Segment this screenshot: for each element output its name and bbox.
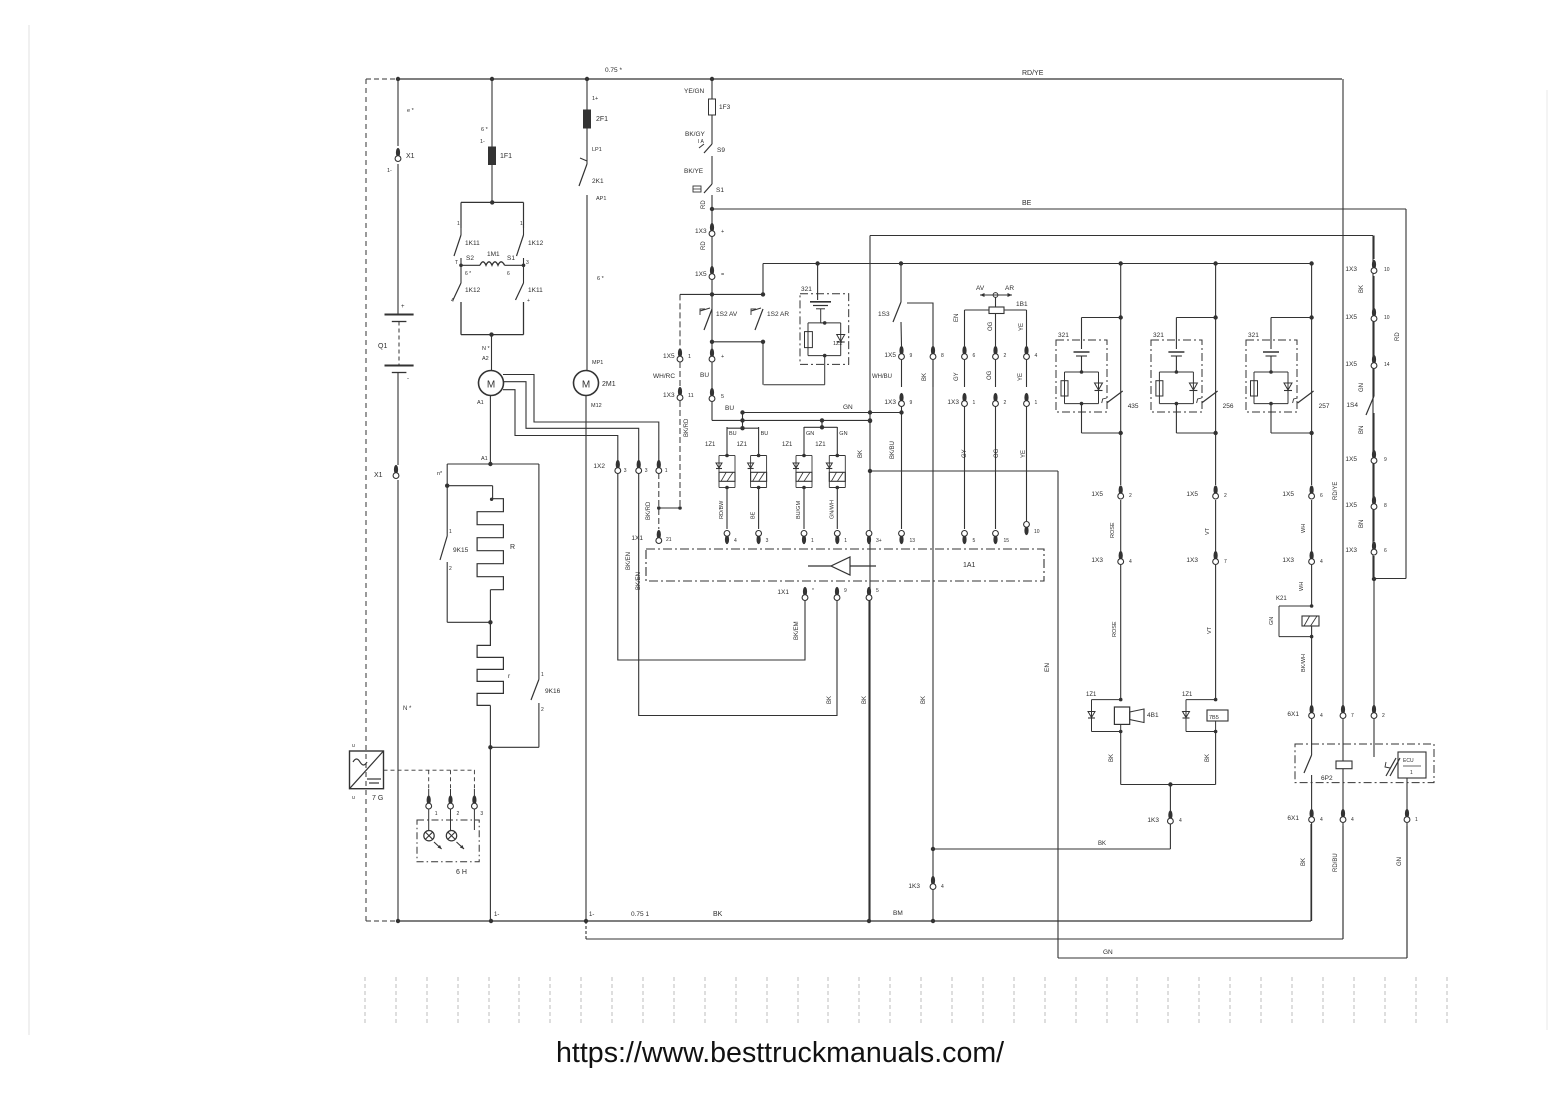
wire vt xyxy=(1205,500,1216,551)
svg-text:1X5: 1X5 xyxy=(1091,491,1103,498)
svg-text:1X2: 1X2 xyxy=(593,463,605,470)
svg-text:4: 4 xyxy=(734,538,737,544)
svg-text:6 H: 6 H xyxy=(456,869,467,876)
wire 1M1 column xyxy=(480,79,492,202)
svg-text:10: 10 xyxy=(1034,529,1040,535)
connector 869 pin xyxy=(866,531,882,545)
svg-text:K21: K21 xyxy=(1276,596,1287,602)
switch 1K11 upper-left xyxy=(454,221,480,266)
wire 1K3 branch xyxy=(933,841,1170,849)
svg-text:4B1: 4B1 xyxy=(1147,712,1159,719)
svg-text:1: 1 xyxy=(435,811,438,817)
svg-text:1: 1 xyxy=(973,400,976,406)
svg-text:1X3: 1X3 xyxy=(884,399,896,406)
module 6B8 xyxy=(1398,752,1426,809)
svg-text:4: 4 xyxy=(1035,353,1038,359)
svg-text:2: 2 xyxy=(541,707,544,713)
wire heater right branch xyxy=(538,464,540,679)
svg-text:1K12: 1K12 xyxy=(465,287,481,294)
connector 1X3 rose xyxy=(1091,551,1132,565)
connector 1A1 pin 3 xyxy=(756,531,769,545)
connector 1A1 pin 4 xyxy=(724,531,737,545)
switch 1K12 upper-right xyxy=(517,221,544,266)
connector 6X1 bottom row xyxy=(1287,809,1418,823)
selector AV/AR 1B1 xyxy=(954,285,1028,346)
svg-text:9K15: 9K15 xyxy=(453,547,469,554)
LED optocoupler 6P2 xyxy=(1385,758,1400,776)
wire 7G dashed links xyxy=(384,770,476,789)
svg-text:1X5: 1X5 xyxy=(1345,361,1357,368)
svg-text:1: 1 xyxy=(844,538,847,544)
svg-text:1Z1: 1Z1 xyxy=(782,442,793,448)
ECU 1A1 box xyxy=(646,549,1044,581)
node heater top xyxy=(447,456,539,466)
svg-text:VT: VT xyxy=(1207,626,1213,634)
svg-text:1X5: 1X5 xyxy=(1345,314,1357,321)
svg-text:e *: e * xyxy=(407,108,415,114)
svg-text:9: 9 xyxy=(910,353,913,359)
svg-text:321: 321 xyxy=(801,286,812,293)
wire BK/RD dashed column xyxy=(659,294,690,509)
switch 2K1 xyxy=(579,158,604,186)
svg-text:BK: BK xyxy=(1109,754,1115,762)
connector 1A1 pin 1 xyxy=(834,531,847,545)
connector 1K3 xyxy=(1147,810,1182,824)
svg-text:1-: 1- xyxy=(480,139,485,145)
wire columns to ECU xyxy=(890,360,1027,921)
connector 1X3 xyxy=(695,223,724,237)
svg-text:13: 13 xyxy=(910,538,916,544)
wire BE line from S1 xyxy=(712,200,1406,579)
wire to 6P2 xyxy=(1311,719,1313,755)
svg-text:1-: 1- xyxy=(589,912,594,918)
switch 1K12 lower-left xyxy=(451,265,481,334)
svg-text:OG: OG xyxy=(987,370,993,380)
switch 9K15 xyxy=(440,529,469,622)
svg-text:BK: BK xyxy=(1205,754,1211,762)
wire vt 2 xyxy=(1207,565,1216,700)
svg-text:2: 2 xyxy=(1382,713,1385,719)
connector 1X5 xyxy=(695,266,724,280)
connector X1 lower xyxy=(374,465,399,479)
relay K21 xyxy=(1269,565,1319,705)
svg-text:6P2: 6P2 xyxy=(1321,775,1333,782)
wire motor1 output 2 xyxy=(503,382,639,461)
wire motor1 output 3 xyxy=(503,390,618,461)
svg-text:1K3: 1K3 xyxy=(908,883,920,890)
svg-text:RD: RD xyxy=(1395,332,1401,341)
svg-text:BK/BU: BK/BU xyxy=(890,441,896,459)
wire relay bus 2 xyxy=(804,425,837,429)
svg-text:1X3: 1X3 xyxy=(1091,557,1103,564)
svg-text:2: 2 xyxy=(449,566,452,572)
svg-text:*: * xyxy=(812,588,814,594)
svg-text:BN: BN xyxy=(1359,520,1365,528)
svg-text:7: 7 xyxy=(1351,713,1354,719)
connector 712-349 xyxy=(709,348,724,362)
wire GN bottom line xyxy=(1058,826,1407,958)
resistor r lower zigzag xyxy=(477,622,511,747)
svg-text:RD/YE: RD/YE xyxy=(1333,482,1339,500)
svg-text:6: 6 xyxy=(973,353,976,359)
svg-text:BK: BK xyxy=(1359,285,1365,293)
connector 1X3 row middle xyxy=(884,393,1037,407)
svg-text:+: + xyxy=(527,298,530,304)
svg-text:AR: AR xyxy=(1005,285,1014,292)
wire horn bottom bus xyxy=(1121,782,1216,811)
svg-text:321: 321 xyxy=(1058,332,1069,339)
svg-text:A1: A1 xyxy=(481,456,488,462)
svg-text:6 *: 6 * xyxy=(597,276,605,282)
svg-text:3: 3 xyxy=(526,260,529,266)
connector 1A1 pin 1 xyxy=(801,531,814,545)
svg-text:S1: S1 xyxy=(716,187,724,194)
node 1S2 bottom xyxy=(710,340,765,385)
connector 6H pins xyxy=(426,789,484,830)
wire bottom bus BK xyxy=(366,824,1311,923)
wire 869 column segment xyxy=(858,419,872,458)
wire 2M1 column xyxy=(587,79,606,409)
svg-text:1X5: 1X5 xyxy=(1186,491,1198,498)
node heater mid xyxy=(447,620,492,624)
svg-text:T: T xyxy=(455,260,458,266)
svg-text:15: 15 xyxy=(1004,538,1010,544)
svg-text:WH/BU: WH/BU xyxy=(872,374,892,380)
wire motor1 output 1 xyxy=(503,375,659,462)
wire 658.8 BK/EN dashed to 1A1 xyxy=(636,473,661,590)
svg-text:21: 21 xyxy=(666,537,672,543)
wire bottom colors xyxy=(1301,823,1407,958)
svg-text:2K1: 2K1 xyxy=(592,178,604,185)
wire motor to heater xyxy=(489,396,491,465)
svg-text:1: 1 xyxy=(449,529,452,535)
svg-text:M: M xyxy=(487,380,495,391)
switch S9 xyxy=(698,139,725,154)
svg-text:BK: BK xyxy=(858,450,864,458)
wire long column BK xyxy=(869,236,871,922)
connector 1X5 rc2 xyxy=(1345,308,1389,322)
svg-text:0.75 *: 0.75 * xyxy=(605,67,622,74)
contactor H-bridge 1K11/1K12 xyxy=(461,200,524,334)
svg-text:9: 9 xyxy=(844,588,847,594)
svg-text:VT: VT xyxy=(1205,527,1211,535)
buzzer 7B5 xyxy=(1182,692,1228,785)
svg-text:S9: S9 xyxy=(717,147,725,154)
svg-text:BK/YE: BK/YE xyxy=(684,168,704,175)
svg-text:1Z1: 1Z1 xyxy=(1182,692,1193,698)
svg-text:9: 9 xyxy=(910,400,913,406)
svg-text:OG: OG xyxy=(988,321,994,331)
svg-text:+: + xyxy=(401,304,405,310)
wire columns between rows xyxy=(902,360,1027,387)
svg-text:u: u xyxy=(352,795,355,801)
svg-text:BU: BU xyxy=(725,405,734,412)
svg-text:YE: YE xyxy=(1021,450,1027,458)
connector 1X5 rc3 xyxy=(1345,355,1389,369)
svg-text:1: 1 xyxy=(811,538,814,544)
svg-text:X1: X1 xyxy=(374,472,383,479)
svg-text:1K11: 1K11 xyxy=(465,240,480,247)
wire xyxy=(1546,90,1548,1030)
wire to motor 1M1 xyxy=(482,332,494,370)
svg-text:GN: GN xyxy=(1103,949,1113,956)
wire 837 867 bottom stubs xyxy=(836,600,838,606)
svg-text:1B1: 1B1 xyxy=(1016,301,1028,308)
svg-text:BK/EN: BK/EN xyxy=(626,552,632,570)
svg-text:1: 1 xyxy=(665,468,668,474)
svg-text:BU: BU xyxy=(700,372,709,379)
wire 869 bottom xyxy=(868,600,870,921)
svg-text:r: r xyxy=(508,673,511,680)
svg-text:11: 11 xyxy=(688,393,694,399)
relay coil 1Z1 at 804 xyxy=(782,427,814,529)
svg-text:1: 1 xyxy=(541,672,544,678)
connector 1X2 row xyxy=(593,460,667,474)
svg-text:3: 3 xyxy=(645,468,648,474)
connector 1374 pin2 xyxy=(1371,705,1385,719)
svg-text:N *: N * xyxy=(403,706,412,712)
switch S1 xyxy=(693,184,724,194)
svg-text:BU/GM: BU/GM xyxy=(796,501,802,519)
svg-text:YE: YE xyxy=(1018,373,1024,381)
svg-text:1+: 1+ xyxy=(592,96,598,102)
svg-text:1Z1: 1Z1 xyxy=(705,442,716,448)
suppressor module 321 / switch 435 xyxy=(1056,261,1139,485)
svg-text:256: 256 xyxy=(1223,403,1234,410)
svg-text:GN: GN xyxy=(1397,857,1403,866)
wire second bottom line xyxy=(586,826,1343,939)
connector X1 xyxy=(395,148,415,162)
wire top supply line 0.75 RD/YE xyxy=(366,67,1342,79)
svg-text:1: 1 xyxy=(457,221,460,227)
svg-text:1S3: 1S3 xyxy=(878,311,890,318)
svg-text:GN: GN xyxy=(806,431,814,437)
node top junctions xyxy=(396,77,714,81)
svg-text:1X3: 1X3 xyxy=(947,399,959,406)
svg-text:8: 8 xyxy=(941,353,944,359)
svg-text:Q1: Q1 xyxy=(378,343,387,350)
wire line to right chain xyxy=(870,236,1373,580)
svg-text:1Z2: 1Z2 xyxy=(833,341,842,347)
wire 1K3 down xyxy=(1169,824,1171,849)
svg-text:M12: M12 xyxy=(591,403,602,409)
wire right chain xyxy=(1359,236,1401,582)
svg-text:6: 6 xyxy=(1384,548,1387,554)
svg-text:1A1: 1A1 xyxy=(963,562,976,569)
svg-text:8: 8 xyxy=(1384,503,1387,509)
svg-text:1Z1: 1Z1 xyxy=(737,442,748,448)
svg-text:14: 14 xyxy=(1384,362,1390,368)
svg-text:1M1: 1M1 xyxy=(487,251,500,258)
svg-text:2: 2 xyxy=(1004,353,1007,359)
svg-text:2: 2 xyxy=(1004,400,1007,406)
svg-text:1K3: 1K3 xyxy=(1147,817,1159,824)
connector 1X5 wh xyxy=(1282,485,1323,499)
svg-text:1X5: 1X5 xyxy=(663,353,675,360)
svg-text:5: 5 xyxy=(876,588,879,594)
svg-text:1: 1 xyxy=(1035,400,1038,406)
svg-text:10: 10 xyxy=(1384,315,1390,321)
svg-text:WH/RC: WH/RC xyxy=(653,373,675,380)
wire wh xyxy=(1301,500,1312,551)
wire BU link lines xyxy=(712,404,904,428)
connector 1X5 680 xyxy=(663,348,691,362)
svg-text:1X3: 1X3 xyxy=(663,392,675,399)
svg-text:1F3: 1F3 xyxy=(719,104,731,111)
svg-text:4: 4 xyxy=(1179,818,1182,824)
svg-text:BE: BE xyxy=(1022,200,1032,207)
svg-text:4: 4 xyxy=(1129,559,1132,565)
node S1 out xyxy=(710,207,714,211)
svg-text:321: 321 xyxy=(1248,332,1259,339)
svg-text:0.75 1: 0.75 1 xyxy=(631,911,649,918)
svg-text:7 G: 7 G xyxy=(372,795,383,802)
svg-text:1Z1: 1Z1 xyxy=(1086,692,1097,698)
svg-text:4: 4 xyxy=(1320,559,1323,565)
svg-text:BK: BK xyxy=(862,696,868,704)
wire xyxy=(28,25,30,1035)
svg-text:BK: BK xyxy=(922,373,928,381)
svg-text:N *: N * xyxy=(482,346,491,352)
svg-text:1X3: 1X3 xyxy=(1345,266,1357,273)
svg-text:BU: BU xyxy=(761,431,769,437)
relay coil 1Z1 at 758.6 xyxy=(737,427,769,529)
svg-text:S1: S1 xyxy=(507,255,515,262)
svg-text:4: 4 xyxy=(1320,713,1323,719)
relay coil 1Z1 at 727 xyxy=(705,427,737,529)
svg-text:4: 4 xyxy=(1320,817,1323,823)
svg-text:M: M xyxy=(582,380,590,391)
svg-text:435: 435 xyxy=(1128,403,1139,410)
fuse 1F3 xyxy=(709,99,731,115)
svg-text:7B5: 7B5 xyxy=(1209,715,1219,721)
svg-text:1: 1 xyxy=(688,354,691,360)
svg-text:BK: BK xyxy=(713,911,723,918)
connector 1X5 vt xyxy=(1186,485,1227,499)
svg-text:3: 3 xyxy=(624,468,627,474)
control box 6P2 xyxy=(1295,744,1434,783)
svg-text:MP1: MP1 xyxy=(592,360,603,366)
svg-text:1X3: 1X3 xyxy=(1186,557,1198,564)
connector 1X3 680 xyxy=(663,387,694,401)
svg-text:+: + xyxy=(721,229,724,235)
svg-text:1X3: 1X3 xyxy=(695,228,707,235)
connector 1343 pin7 xyxy=(1340,705,1354,719)
fuse 2F1 xyxy=(584,110,609,128)
svg-text:2: 2 xyxy=(1224,493,1227,499)
svg-text:1X5: 1X5 xyxy=(1345,502,1357,509)
svg-text:1: 1 xyxy=(1415,817,1418,823)
svg-text:BK: BK xyxy=(1098,841,1106,847)
svg-text:1X1: 1X1 xyxy=(631,535,643,542)
wire relay bus 1 xyxy=(727,426,759,430)
svg-text:1K12: 1K12 xyxy=(528,240,544,247)
svg-text:1S2 AR: 1S2 AR xyxy=(767,311,789,318)
svg-text:RD/BW: RD/BW xyxy=(719,500,725,519)
svg-text:1S2 AV: 1S2 AV xyxy=(716,311,738,318)
connector 1X5 rose xyxy=(1091,485,1132,499)
connector 1X1 658.8 xyxy=(631,530,671,544)
svg-text:1X5: 1X5 xyxy=(1282,491,1294,498)
svg-text:ROSE: ROSE xyxy=(1112,621,1118,637)
svg-text:BN: BN xyxy=(1359,426,1365,434)
svg-text:9: 9 xyxy=(1384,457,1387,463)
svg-text:1-: 1- xyxy=(494,912,499,918)
svg-text:GY: GY xyxy=(954,372,960,381)
wire line to 1058 drop xyxy=(868,469,1058,958)
svg-text:2M1: 2M1 xyxy=(602,381,616,388)
svg-text:R: R xyxy=(510,544,515,551)
lamp box 6H xyxy=(417,820,479,876)
node heater bottom xyxy=(488,745,539,921)
svg-text:2F1: 2F1 xyxy=(596,116,608,123)
svg-text:4: 4 xyxy=(941,884,944,890)
wire 712 column top xyxy=(684,79,712,420)
wire rose xyxy=(1110,500,1121,551)
suppressor module 321 / switch 257 xyxy=(1246,261,1330,485)
connector 1X3 vt xyxy=(1186,551,1227,565)
resistor 6P2 internal xyxy=(1336,761,1352,809)
resistor R upper zigzag xyxy=(477,498,515,623)
svg-text:BK/RD: BK/RD xyxy=(684,418,690,437)
svg-text:10: 10 xyxy=(1384,267,1390,273)
svg-text:2: 2 xyxy=(1129,493,1132,499)
svg-text:BK: BK xyxy=(1301,858,1307,866)
op-amp 1A1 driver triangle xyxy=(808,557,876,575)
svg-text:WH: WH xyxy=(1301,524,1307,533)
wire 617.8 to 1A1 pin xyxy=(618,473,805,660)
svg-text:GN: GN xyxy=(1359,383,1365,392)
svg-text:2: 2 xyxy=(457,811,460,817)
wire heater left branch xyxy=(437,464,493,536)
svg-text:RD: RD xyxy=(701,200,707,209)
svg-text:https://www.besttruckmanuals.c: https://www.besttruckmanuals.com/ xyxy=(556,1037,1004,1069)
svg-text:7: 7 xyxy=(1224,559,1227,565)
node 1S2 top xyxy=(680,292,765,296)
converter 7G xyxy=(350,743,384,802)
svg-text:6X1: 6X1 xyxy=(1287,711,1299,718)
svg-text:BU: BU xyxy=(729,431,737,437)
svg-text:3: 3 xyxy=(480,811,483,817)
svg-text:9K16: 9K16 xyxy=(545,688,561,695)
svg-text:6X1: 6X1 xyxy=(1287,815,1299,822)
wire GN distribution line xyxy=(763,263,1312,265)
svg-text:X1: X1 xyxy=(406,153,415,160)
svg-text:6: 6 xyxy=(1320,493,1323,499)
connector 1X5 rc4 xyxy=(1345,450,1387,464)
svg-text:BK: BK xyxy=(827,696,833,704)
wire battery column xyxy=(387,79,415,921)
wire color labels row xyxy=(872,370,1024,381)
svg-text:1X5: 1X5 xyxy=(695,271,707,278)
wire 763 to GN line xyxy=(762,264,764,295)
svg-text:u: u xyxy=(352,743,355,749)
svg-text:GN: GN xyxy=(843,404,853,411)
svg-text:RD/YE: RD/YE xyxy=(1022,70,1044,77)
svg-text:1S4: 1S4 xyxy=(1346,402,1358,409)
inductor 1M1 winding with taps S2 S1 xyxy=(459,251,525,277)
connector 1X5 row middle xyxy=(884,346,1037,360)
battery Q1 xyxy=(378,304,414,382)
connector 712-395 xyxy=(709,388,724,402)
connector ECU top pins right xyxy=(899,522,1040,545)
svg-text:3+: 3+ xyxy=(876,538,882,544)
svg-text:321: 321 xyxy=(1153,332,1164,339)
svg-text:1: 1 xyxy=(520,221,523,227)
svg-text:=: = xyxy=(721,272,724,278)
svg-text:OG: OG xyxy=(994,448,1000,458)
wire left dashed border xyxy=(365,79,367,921)
